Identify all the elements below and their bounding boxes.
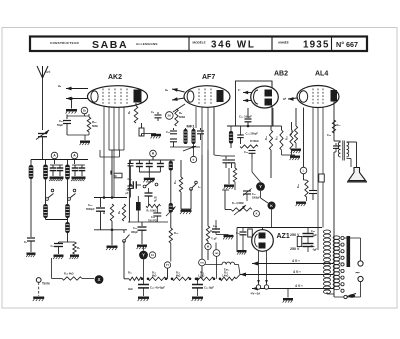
wire transformer bottom left	[326, 292, 328, 294]
AB2 diode arrow 1	[243, 92, 252, 94]
svg-text:N° 667: N° 667	[336, 40, 358, 49]
circled A node 3	[150, 150, 157, 157]
wire det rail	[234, 182, 236, 190]
wire grid rail y157	[100, 156, 120, 158]
ground C52	[238, 250, 247, 252]
wire b node stub	[193, 144, 195, 156]
wire AK2 leg 5	[123, 107, 125, 151]
wire filter left edge	[128, 160, 130, 222]
wire AL4 leg g3	[322, 108, 324, 228]
ground heater 3	[287, 289, 289, 298]
ground trimmer 1b	[57, 177, 64, 179]
capacitor C31b MF1 right	[200, 128, 202, 130]
svg-text:C₅₂: C₅₂	[236, 232, 240, 235]
circled 77 node	[164, 262, 170, 268]
svg-text:K: K	[256, 211, 258, 215]
wire cap trio bottom rail	[139, 171, 160, 173]
wire AL4 leg k	[303, 108, 305, 168]
wire to divider chain	[123, 265, 125, 279]
wire bias loop bottom	[94, 229, 127, 231]
svg-text:∼: ∼	[355, 271, 360, 277]
svg-text:¼ μF: ¼ μF	[211, 237, 217, 241]
wire Y to K	[260, 191, 262, 198]
mains transformer secondary winding	[323, 230, 330, 234]
svg-text:AF7: AF7	[202, 74, 215, 81]
AB2 diode plate 1	[265, 90, 273, 97]
wire det column	[231, 147, 252, 149]
wire box to ground	[141, 134, 143, 137]
wire S5 down	[190, 189, 192, 209]
resistor R5 600ohm	[175, 109, 178, 126]
ground bias	[107, 246, 118, 248]
capacitor C8 trio 3	[159, 160, 161, 163]
capacitor C6 trio 1	[138, 160, 140, 163]
svg-text:R₁₆: R₁₆	[286, 136, 289, 140]
fuse box Si	[114, 173, 122, 178]
wire mains bottom	[334, 296, 361, 298]
wire terre branch	[51, 258, 53, 279]
wire Y2 up	[143, 246, 145, 251]
wire exc to heater line	[235, 264, 239, 266]
resistor R18 1M grid	[294, 126, 297, 143]
coil trimmer arrow	[166, 207, 176, 217]
wire AZ1 top	[262, 228, 264, 230]
coil L3 coupling	[67, 220, 69, 223]
black node K	[268, 202, 276, 210]
svg-text:C₂₉: C₂₉	[88, 203, 93, 207]
resistor R7 1M	[110, 204, 113, 221]
svg-text:-4V∼2A: -4V∼2A	[250, 292, 260, 296]
svg-text:5MΩ: 5MΩ	[92, 124, 98, 128]
black node Y	[256, 182, 265, 191]
capacitor C7 trio 2	[148, 160, 150, 163]
wire transformer to speaker	[347, 141, 357, 143]
svg-text:R₁₁: R₁₁	[174, 180, 177, 184]
wire 140 feed	[215, 243, 217, 250]
resistor R26 1.4k	[220, 277, 236, 280]
oscillator coil L2a	[67, 160, 69, 165]
wire antenna down	[42, 78, 44, 130]
capacitor C3 padder	[58, 242, 60, 244]
wire AF7 leg b	[201, 107, 203, 155]
resistor R22 6k	[148, 277, 166, 280]
wire fuse tick	[110, 171, 112, 175]
AK2 grids	[102, 89, 104, 105]
wire AK2 leg 2	[108, 107, 110, 150]
wire arrow junction down	[71, 99, 73, 109]
ground near box	[151, 134, 161, 136]
tube AB2 envelope	[251, 86, 279, 108]
svg-text:C₄₂ 100pF: C₄₂ 100pF	[239, 115, 252, 119]
svg-text:3300pF: 3300pF	[252, 197, 261, 199]
oscillator coil L2b	[65, 204, 70, 218]
wire R28 to X	[82, 278, 94, 280]
resistor R15 1M	[280, 130, 283, 150]
svg-text:C₅₀: C₅₀	[311, 230, 315, 233]
wire loop to ground	[84, 135, 86, 140]
ground terre	[33, 297, 44, 299]
capacitor C46b across primary	[335, 143, 337, 146]
svg-text:R₁₅: R₁₅	[276, 136, 279, 140]
capacitor C28 right of loop	[130, 160, 132, 163]
circled K node small	[254, 211, 260, 217]
band switch S2	[68, 198, 71, 201]
wire AL4 grid stopper	[291, 108, 293, 122]
svg-text:R₉ 10kΩ: R₉ 10kΩ	[147, 210, 157, 213]
electrolytic C49	[197, 279, 199, 284]
svg-text:Si: Si	[115, 175, 118, 178]
resistor R12 1k	[206, 226, 209, 241]
svg-text:Y: Y	[259, 184, 262, 189]
header divider 3	[331, 37, 333, 51]
resistor R8 40k	[122, 204, 125, 221]
svg-text:R₂₈ 4kΩ: R₂₈ 4kΩ	[64, 273, 74, 276]
wire AB2 bottom to bus	[272, 108, 274, 126]
wire AL4 anode out	[333, 101, 335, 141]
resistor R13a	[233, 168, 236, 182]
black node Y2	[139, 251, 148, 260]
ground R1	[70, 255, 79, 257]
svg-text:6kΩ: 6kΩ	[176, 276, 181, 278]
wire C53 to ground	[216, 234, 229, 236]
ground R18	[295, 143, 297, 148]
mains switch	[344, 295, 347, 298]
resistor R11 21k	[179, 177, 182, 192]
svg-text:4 V∼: 4 V∼	[293, 270, 301, 274]
resistor R14 1M	[269, 130, 272, 150]
heater line 3 4V	[252, 288, 333, 290]
black node X	[95, 275, 104, 284]
svg-text:MODÈLE: MODÈLE	[193, 40, 206, 45]
resistor box R27	[248, 229, 253, 237]
circled L node	[300, 167, 307, 174]
AZ1 box left	[236, 228, 238, 253]
resistor box 1a	[141, 123, 143, 128]
svg-text:M: M	[207, 244, 209, 248]
AZ1 box top	[237, 227, 322, 229]
svg-text:C₄₇: C₄₇	[252, 193, 256, 196]
capacitor C47 3300pF	[243, 190, 251, 192]
svg-text:R₁₀: R₁₀	[174, 232, 178, 235]
wire AZ1 filament 2	[266, 251, 268, 285]
ground C53	[224, 235, 234, 237]
circled 2A node	[166, 112, 174, 120]
svg-text:50pF: 50pF	[57, 123, 63, 127]
header box	[30, 37, 367, 52]
wire AL4 leg g1	[317, 108, 319, 251]
trimmer capacitor column 1	[52, 165, 54, 168]
svg-text:480pF: 480pF	[131, 231, 138, 234]
MF1 trimmer arrow	[183, 146, 196, 151]
AB2 diode arrow 2	[243, 100, 252, 102]
svg-text:4μF: 4μF	[313, 234, 318, 237]
circled A node 1	[54, 160, 56, 165]
AF7 anode	[217, 90, 224, 102]
circled M node	[205, 243, 211, 249]
oscillator coil L1b	[43, 204, 48, 218]
circled A node 2	[74, 160, 76, 165]
wire AF7 legb lower	[201, 155, 203, 250]
AK2 cathode	[91, 91, 98, 102]
IF coil column bottom variable	[169, 203, 173, 213]
AL4 anode	[331, 90, 338, 102]
wire left column stub	[30, 160, 32, 166]
capacitor C36 480pF	[141, 222, 143, 226]
MF1 primary coil	[185, 128, 187, 129]
wire AK2 legs rail	[109, 149, 124, 151]
IF coil column top	[170, 160, 172, 161]
svg-text:−10: −10	[147, 181, 152, 184]
svg-text:AL4: AL4	[315, 71, 328, 78]
svg-text:4kΩ: 4kΩ	[128, 288, 133, 291]
wire AK2 leg 3	[113, 107, 115, 198]
wire filter caps	[307, 228, 309, 234]
tube AZ1 envelope	[252, 230, 274, 252]
trimmer capacitor column 2	[74, 165, 76, 168]
resistor R1 to ground	[73, 242, 76, 254]
output transformer secondary	[347, 142, 349, 157]
wire antenna to coil block	[42, 137, 44, 160]
wire mid rail 1	[128, 221, 168, 223]
volume potentiometer R17	[231, 208, 252, 211]
svg-text:Cₐ: Cₐ	[151, 110, 154, 114]
wire A3 to rail	[152, 157, 154, 160]
svg-text:250 V: 250 V	[290, 247, 300, 251]
mains plug pin 1	[358, 261, 363, 266]
AF7 heater arrow 1	[172, 89, 185, 92]
ground osc loop	[80, 141, 90, 143]
resistor R9 10k	[146, 204, 161, 207]
wire AF7 leg a	[195, 107, 197, 128]
capacitor C32 50pF	[148, 188, 150, 193]
wire coil to switch 2	[67, 180, 69, 191]
svg-text:SABA: SABA	[92, 39, 128, 51]
resistor R23 6k	[172, 277, 190, 280]
wire filter top rail	[129, 159, 174, 161]
filter capacitor C51	[303, 243, 314, 245]
AB2 diode plate 2	[265, 99, 273, 106]
circled b node	[190, 156, 196, 162]
svg-text:Y: Y	[142, 253, 145, 258]
ground padder	[54, 255, 64, 257]
ground AK2 grid	[66, 109, 77, 111]
svg-text:ANNÉE: ANNÉE	[278, 40, 289, 45]
resistor R4 anode AK2	[135, 103, 137, 106]
AL4 heater arrow	[288, 98, 297, 99]
wire AL4 anode long down	[333, 152, 335, 297]
output transformer core	[342, 141, 344, 161]
wire 140 down	[216, 256, 218, 278]
capacitor C46 osc grid	[66, 115, 68, 120]
capacitor Ca 100pF	[157, 112, 159, 114]
resistor R50k horizontal	[240, 145, 258, 148]
svg-text:1b: 1b	[83, 109, 87, 113]
filter resistor box	[297, 237, 302, 247]
wire AK2 leg 1	[103, 107, 105, 198]
svg-text:C₄₉ 8μF: C₄₉ 8μF	[204, 286, 214, 290]
svg-text:Terre: Terre	[42, 282, 50, 286]
svg-text:R₂₀: R₂₀	[337, 124, 341, 127]
svg-text:R₂₆: R₂₆	[224, 272, 228, 275]
svg-text:C₄₁ 200pF: C₄₁ 200pF	[246, 132, 259, 136]
svg-text:Ant: Ant	[45, 70, 50, 74]
AZ1 cathode arc	[255, 234, 258, 247]
wire 77 stub	[167, 268, 169, 279]
wire bottom rail left block	[46, 219, 68, 221]
filter capacitor C50	[303, 233, 314, 235]
heater line 1 4V	[252, 263, 333, 265]
wire MF1 bottom rail	[170, 146, 200, 148]
svg-text:1,4kΩ: 1,4kΩ	[222, 275, 228, 278]
svg-text:4 V∼: 4 V∼	[292, 259, 300, 263]
ground trimmer 1a	[50, 177, 57, 179]
svg-text:5000pF: 5000pF	[86, 208, 95, 211]
capacitor C44	[309, 190, 317, 192]
AB2 cathode	[254, 90, 259, 104]
wire top rail left block	[31, 159, 88, 161]
speaker	[349, 168, 366, 181]
circled 140 node	[213, 250, 220, 257]
wire AK2 grid arrow 2	[66, 98, 88, 100]
capacitor C2 left column	[27, 237, 35, 239]
dashed wire terre to ground	[38, 282, 40, 296]
ground detector left	[224, 185, 234, 187]
svg-text:2A: 2A	[168, 114, 172, 118]
mains transformer core bar	[347, 236, 351, 267]
mains transformer taps	[341, 236, 344, 239]
wire Y left	[251, 158, 253, 172]
svg-text:L: L	[303, 169, 305, 173]
wire AK2 leg 4	[118, 107, 120, 150]
wire 250V rail	[284, 234, 308, 236]
coil far left column	[29, 165, 34, 179]
ground C49	[192, 297, 203, 299]
wire IF column mid	[170, 171, 172, 204]
AF7 heater arrow 2	[172, 98, 185, 100]
svg-text:C₃₃: C₃₃	[151, 216, 155, 219]
svg-text:4 V∼: 4 V∼	[295, 284, 303, 288]
excitation field coil	[205, 264, 222, 266]
ground left column	[27, 253, 36, 255]
circled 700 node	[199, 259, 206, 266]
wire R8 to switch	[123, 230, 125, 233]
wire AF7 anode down	[213, 107, 215, 151]
variable capacitor C1 antenna series	[38, 133, 47, 135]
svg-text:6kΩ: 6kΩ	[152, 276, 157, 278]
wire osc grid loop top	[67, 115, 89, 117]
svg-text:1935: 1935	[303, 40, 330, 51]
wire AF7 leg c	[207, 107, 209, 150]
wire det bus 126	[227, 125, 273, 127]
ground trimmer 2b	[79, 177, 86, 179]
wire AF7 to 2A	[173, 104, 185, 112]
AZ1 plate 2	[259, 243, 266, 249]
heater plug circle 2	[264, 285, 268, 289]
wire AL4 leg g2	[312, 108, 314, 191]
AF7 grids	[198, 89, 200, 105]
wire chain start	[124, 278, 129, 280]
svg-text:C₄₈ 4(+4)μF: C₄₈ 4(+4)μF	[150, 286, 165, 290]
header divider 1	[188, 37, 190, 51]
svg-text:1ᵇ: 1ᵇ	[238, 88, 240, 92]
band switch S4	[143, 185, 146, 188]
ground cap trio	[148, 172, 150, 178]
wire 700 to chain	[201, 266, 203, 279]
ground C36	[137, 245, 147, 247]
wire AK2 grid arrow 1	[66, 88, 88, 90]
svg-text:b: b	[193, 158, 195, 162]
wire pot down	[230, 213, 232, 222]
capacitor C43	[249, 150, 256, 152]
heater plug circle 1	[256, 285, 260, 289]
tube AL4 envelope	[297, 86, 339, 108]
wire Y2 down	[143, 259, 145, 278]
header divider 2	[271, 37, 273, 51]
svg-text:MF1: MF1	[187, 123, 196, 128]
svg-text:R₁₈: R₁₈	[290, 131, 293, 135]
wire plug down	[360, 282, 362, 297]
oscillator coil L1a	[45, 160, 47, 165]
earth terminal Terre	[36, 278, 41, 283]
wire K down to rectifier box	[271, 210, 273, 228]
svg-text:R₁₉: R₁₉	[297, 184, 300, 188]
ground C48	[138, 297, 149, 299]
wire chain end	[236, 275, 240, 279]
wire mains top tap to plug	[344, 237, 361, 239]
wire AB2 top	[271, 81, 273, 87]
mains plug pin 2	[358, 276, 363, 281]
wire pot left	[224, 190, 226, 210]
resistor R19 50k	[305, 180, 308, 197]
oscillator padding coil dark	[136, 202, 141, 211]
wire AZ1 filament 1	[258, 251, 260, 285]
heater line 2 4V	[240, 274, 333, 276]
resistor R21 4k	[129, 277, 142, 280]
svg-text:R₁₇ 0,5MΩ: R₁₇ 0,5MΩ	[232, 202, 244, 205]
resistor R16 1M	[290, 130, 293, 150]
resistor R24 1.1k	[196, 277, 214, 280]
ground trimmer 2a	[72, 177, 79, 179]
ground MF2	[181, 208, 191, 210]
band switch S1	[46, 198, 49, 201]
AF7 cathode	[187, 91, 194, 102]
tube AF7 envelope	[184, 86, 230, 108]
ground R15 R16	[281, 150, 283, 155]
AL4 grids	[312, 89, 314, 105]
wire M down	[207, 250, 209, 260]
MF1 secondary coil	[193, 128, 195, 129]
resistor R10 12k	[169, 228, 172, 243]
circled 10 node	[149, 252, 155, 258]
capacitor C30 MF1	[173, 128, 175, 130]
wire bias loop top	[94, 197, 127, 199]
svg-text:K: K	[270, 204, 273, 208]
svg-text:1ₐ: 1ₐ	[198, 185, 200, 189]
resistor box 1a right	[319, 174, 325, 182]
svg-text:AK2: AK2	[108, 74, 122, 81]
svg-text:AZ1: AZ1	[277, 233, 290, 240]
capacitor C33 700pF	[156, 206, 158, 213]
svg-text:C₄₆: C₄₆	[59, 119, 64, 123]
ground R19	[306, 197, 308, 201]
svg-text:346 WL: 346 WL	[211, 40, 256, 51]
wire R10 down	[170, 243, 172, 262]
switch S3 tone	[123, 240, 126, 243]
wire R14 down	[270, 150, 272, 178]
svg-text:R 50kΩ: R 50kΩ	[250, 140, 259, 143]
svg-text:CONSTRUCTEUR: CONSTRUCTEUR	[50, 41, 79, 45]
svg-text:600Ω: 600Ω	[179, 116, 185, 119]
